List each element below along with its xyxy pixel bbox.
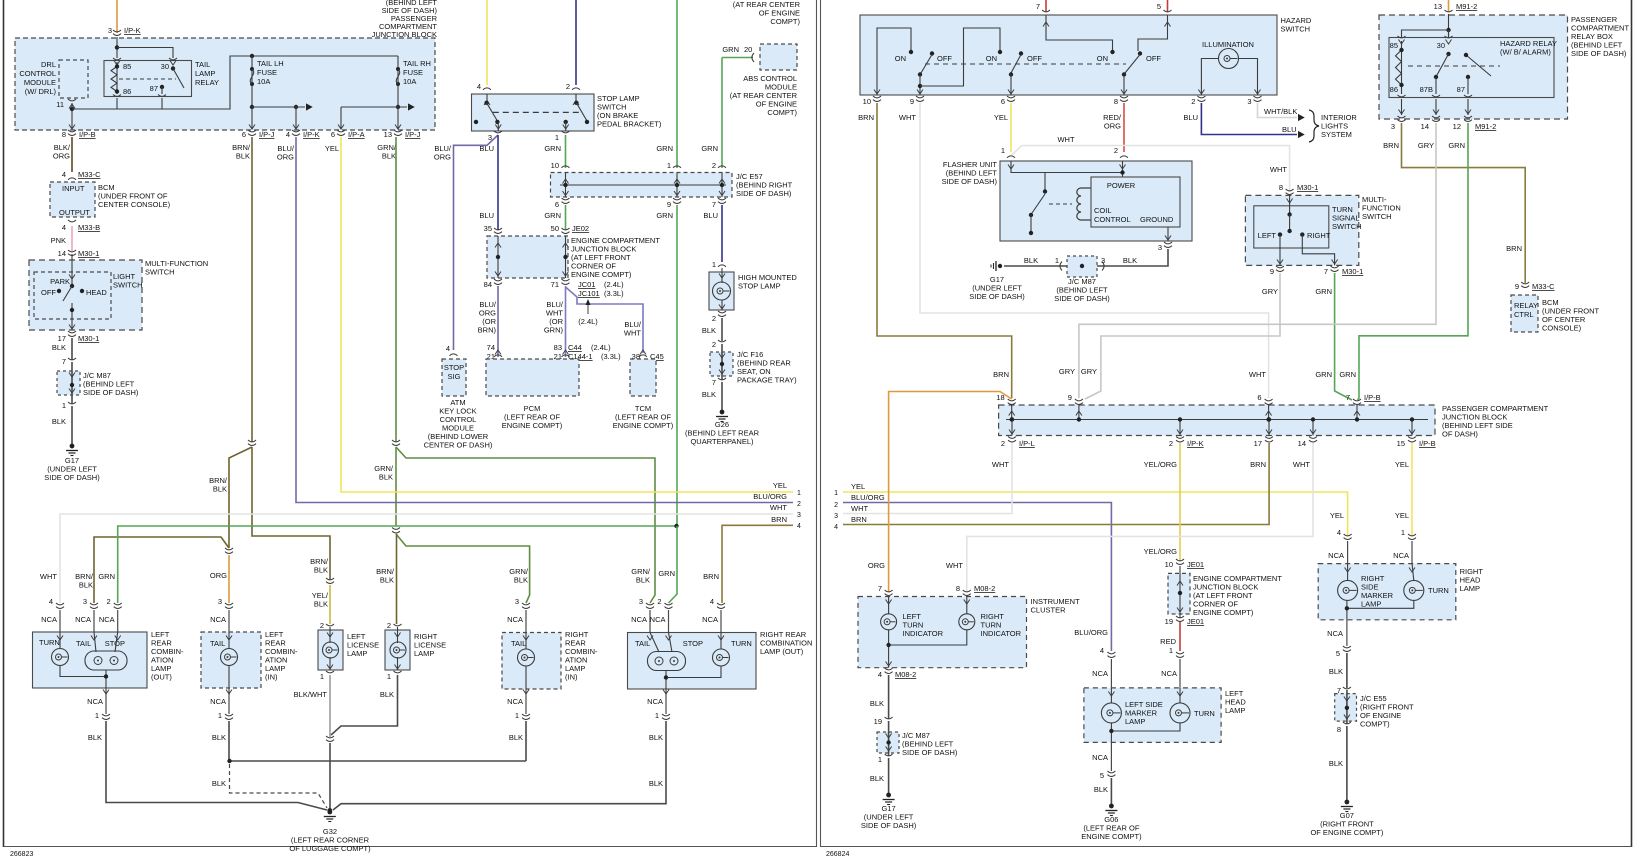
- svg-text:NCA: NCA: [507, 615, 523, 624]
- svg-text:I/P-A: I/P-A: [348, 130, 365, 139]
- wire YEL bus to right head lamp pin 4: [843, 492, 1348, 536]
- svg-text:CONSOLE): CONSOLE): [1542, 324, 1582, 333]
- svg-text:WHT: WHT: [899, 113, 916, 122]
- svg-text:(OUT): (OUT): [151, 673, 172, 682]
- connector pin 7: [718, 378, 726, 380]
- connector PCM pins 74/21: [494, 355, 502, 357]
- svg-text:TAIL LH: TAIL LH: [257, 59, 284, 68]
- wire WHT PCJB pin14 to instrument cluster pin 8: [967, 443, 1313, 592]
- wire PNK BCM to light switch: [71, 226, 73, 251]
- svg-text:PARK: PARK: [50, 277, 70, 286]
- svg-text:BLK: BLK: [649, 779, 663, 788]
- lamp pin connector left rear combination lamp in pin 3: [225, 603, 233, 605]
- svg-text:86: 86: [1390, 85, 1398, 94]
- connector pin 2 at J/C F16: [718, 340, 726, 342]
- svg-text:I/P-B: I/P-B: [1364, 393, 1381, 402]
- svg-text:1: 1: [1169, 646, 1173, 655]
- svg-text:3: 3: [515, 597, 519, 606]
- connector TSS pin 9: [1276, 266, 1284, 268]
- connector J/C E57 pin 7: [718, 198, 726, 200]
- connector JE02 pin 84: [494, 279, 502, 281]
- svg-text:C44: C44: [568, 343, 582, 352]
- wire YEL/BLK to left license lamp pin 2: [329, 585, 331, 624]
- svg-text:10: 10: [1165, 560, 1173, 569]
- connector JE01 pin 10: [1176, 559, 1184, 561]
- ABS control module (at rear center of engine compt): [760, 44, 797, 70]
- connector pin 1: [885, 754, 893, 756]
- wire BLK to G26: [721, 382, 723, 410]
- svg-text:OFF: OFF: [1027, 54, 1042, 63]
- svg-text:3: 3: [797, 512, 801, 519]
- wire to pin 6 I/P-A: [340, 107, 342, 129]
- junction connector J/C F16 (behind rear seat): [710, 352, 733, 376]
- wire branch to relay pin 30: [117, 48, 173, 59]
- wire relay 87 to bus: [158, 95, 166, 97]
- svg-text:BLK/WHT: BLK/WHT: [294, 690, 328, 699]
- wire BLK right license to splice: [331, 675, 398, 735]
- svg-text:(IN): (IN): [565, 673, 578, 682]
- ground G32 (left rear corner of luggage compt): [327, 808, 332, 813]
- wire GRY relay pin14 to PCJB pin 9: [1079, 123, 1436, 398]
- svg-text:STOP LAMP: STOP LAMP: [738, 282, 781, 291]
- right license lamp: [385, 630, 410, 670]
- svg-text:M30-1: M30-1: [78, 334, 99, 343]
- svg-text:BLK: BLK: [702, 326, 716, 335]
- junction under LH fuse: [250, 105, 254, 109]
- connector right head lamp pin 4: [1344, 534, 1352, 536]
- svg-text:4: 4: [834, 524, 838, 531]
- wire GRN TSS pin7 to PCJB pin 7: [1335, 273, 1352, 400]
- relay contact 87: [160, 85, 164, 89]
- svg-text:1: 1: [218, 711, 222, 720]
- svg-text:BLU: BLU: [479, 211, 494, 220]
- tail lh fuse 10A: [250, 54, 254, 58]
- wire GRN tail feed to left rear combination lamp out pin 2: [118, 526, 677, 603]
- left head lamp internal ground: [1111, 723, 1180, 731]
- TCM (left rear of engine compt): [630, 359, 656, 396]
- junction connector J/C M87 (behind left side of dash): [57, 371, 80, 395]
- svg-text:BRN: BRN: [703, 572, 719, 581]
- svg-text:WHT/BLK: WHT/BLK: [1264, 107, 1297, 116]
- ground G17 right page flasher: [998, 264, 1002, 268]
- connector hazard pin 5: [1164, 10, 1172, 12]
- hazard relay (w/ b/ alarm): [1389, 38, 1554, 98]
- svg-text:NCA: NCA: [702, 615, 718, 624]
- connector pin 2 below lamp: [718, 311, 726, 313]
- light switch box: [34, 272, 111, 319]
- svg-text:2: 2: [320, 621, 324, 630]
- left license lamp: [318, 630, 343, 670]
- svg-text:1: 1: [1055, 256, 1059, 265]
- svg-text:M33-B: M33-B: [78, 223, 100, 232]
- svg-text:10A: 10A: [403, 77, 416, 86]
- svg-text:50: 50: [551, 224, 559, 233]
- svg-text:1: 1: [320, 672, 324, 681]
- connector PCM pins 83/21 C44/C144-1: [562, 355, 570, 357]
- passenger compartment relay box: [1379, 15, 1568, 119]
- svg-text:ENGINE COMPT): ENGINE COMPT): [1081, 832, 1142, 841]
- svg-text:M08-2: M08-2: [895, 670, 916, 679]
- splice connector BRN/BLK to YEL/BLK at license: [326, 578, 334, 580]
- svg-text:NCA: NCA: [650, 615, 666, 624]
- svg-text:SWITCH: SWITCH: [113, 281, 143, 290]
- svg-text:M33-C: M33-C: [1532, 282, 1555, 291]
- connector high mounted stop lamp pin 1: [718, 265, 726, 267]
- svg-text:(W/ B/ ALARM): (W/ B/ ALARM): [1500, 48, 1551, 57]
- svg-text:YEL: YEL: [325, 144, 339, 153]
- svg-text:BLK: BLK: [52, 343, 66, 352]
- connector JE02 pin 35: [494, 228, 502, 230]
- wire YEL/ORG PCJB pin 2 I/P-K to JE01: [1179, 443, 1181, 561]
- wire RED/ORG hazard pin8 to flasher pin 2: [1123, 103, 1125, 152]
- svg-text:STOP: STOP: [105, 639, 125, 648]
- svg-text:1: 1: [667, 161, 671, 170]
- svg-text:M30-1: M30-1: [1342, 267, 1363, 276]
- wire BLK to J/C M87: [71, 338, 73, 360]
- svg-text:GRN: GRN: [1315, 287, 1332, 296]
- connector pin 7 at J/C E55: [1343, 687, 1351, 689]
- svg-text:9: 9: [667, 200, 671, 209]
- svg-text:OFF: OFF: [937, 54, 952, 63]
- svg-text:GRY: GRY: [1418, 141, 1434, 150]
- svg-text:MODULE: MODULE: [24, 78, 56, 87]
- svg-text:BLK: BLK: [1024, 256, 1038, 265]
- wire BRN/BLK to right license lamp pin 2: [396, 534, 398, 624]
- svg-text:BRN: BRN: [851, 515, 867, 524]
- svg-text:ON: ON: [895, 54, 906, 63]
- svg-text:GRN: GRN: [658, 569, 675, 578]
- svg-text:BLK: BLK: [649, 733, 663, 742]
- svg-text:4: 4: [62, 170, 66, 179]
- svg-text:GRN: GRN: [1448, 141, 1465, 150]
- svg-text:SIDE OF DASH): SIDE OF DASH): [942, 177, 998, 186]
- svg-text:1: 1: [515, 711, 519, 720]
- svg-text:30: 30: [1437, 41, 1445, 50]
- svg-text:BRN: BRN: [1250, 460, 1266, 469]
- svg-text:12: 12: [1453, 122, 1461, 131]
- svg-text:SYSTEM: SYSTEM: [1321, 130, 1352, 139]
- svg-text:ENGINE COMPT): ENGINE COMPT): [502, 421, 563, 430]
- svg-text:LAMP: LAMP: [347, 649, 367, 658]
- svg-text:6: 6: [1001, 97, 1005, 106]
- svg-text:NCA: NCA: [631, 615, 647, 624]
- wire BRN bus to PCJB pin 17: [843, 443, 1269, 525]
- svg-text:PEDAL BRACKET): PEDAL BRACKET): [597, 120, 662, 129]
- svg-text:19: 19: [1165, 617, 1173, 626]
- connector flasher pin 2: [1120, 156, 1128, 158]
- svg-text:NCA: NCA: [210, 697, 226, 706]
- left rear combination lamp (in) box: [201, 632, 261, 688]
- connector right license pin 1: [394, 671, 402, 673]
- svg-text:I/P-L: I/P-L: [1019, 439, 1035, 448]
- svg-text:BLK: BLK: [1329, 759, 1343, 768]
- svg-text:BLK: BLK: [1123, 256, 1137, 265]
- svg-text:FUSE: FUSE: [257, 68, 277, 77]
- svg-text:10A: 10A: [257, 77, 270, 86]
- svg-text:9: 9: [1068, 393, 1072, 402]
- ground G17 (under left side of dash) cluster: [886, 793, 891, 798]
- hazard switch bottom connectors: [874, 90, 880, 95]
- svg-text:15: 15: [1397, 439, 1405, 448]
- svg-text:NCA: NCA: [75, 615, 91, 624]
- wire BLU/ORG (OR BRN) JE02 84 to PCM: [497, 286, 499, 357]
- svg-text:LAMP: LAMP: [1125, 717, 1145, 726]
- svg-text:SWITCH: SWITCH: [1281, 25, 1311, 34]
- hazard switch 1 feed from pin 10: [877, 28, 911, 95]
- svg-text:2: 2: [657, 597, 661, 606]
- svg-text:SIDE OF DASH): SIDE OF DASH): [861, 821, 917, 830]
- svg-text:4: 4: [62, 223, 66, 232]
- svg-text:QUARTERPANEL): QUARTERPANEL): [690, 437, 754, 446]
- hazard switch 1 lever: [930, 51, 934, 55]
- wire GRN J/C E57 pin6 to JE02 50: [565, 205, 567, 230]
- light switch lever: [63, 286, 72, 301]
- cluster internal ground: [889, 630, 967, 645]
- junction connector J/C E57 (behind right side of dash): [551, 173, 733, 198]
- svg-text:GRY: GRY: [1059, 367, 1075, 376]
- wire BRN/BLK splice to license branch: [252, 447, 330, 580]
- svg-text:I/P-B: I/P-B: [1419, 439, 1436, 448]
- svg-text:1: 1: [387, 672, 391, 681]
- left head lamp box: [1084, 688, 1221, 743]
- svg-text:NCA: NCA: [87, 697, 103, 706]
- svg-text:TURN: TURN: [731, 639, 752, 648]
- junction block bottom connectors: [69, 125, 75, 130]
- svg-text:11: 11: [56, 100, 64, 109]
- svg-text:13: 13: [1434, 2, 1442, 11]
- svg-text:YEL: YEL: [851, 482, 865, 491]
- wire BLK lamp to J/C F16: [721, 318, 723, 341]
- svg-text:1: 1: [797, 490, 801, 497]
- wire left contact to pin 9: [1279, 235, 1281, 266]
- svg-text:GRN: GRN: [1339, 370, 1356, 379]
- svg-text:COIL: COIL: [1094, 206, 1112, 215]
- svg-text:BLK: BLK: [514, 576, 528, 585]
- svg-text:RIGHT: RIGHT: [1307, 231, 1331, 240]
- connector hazard pin 7: [1042, 10, 1050, 12]
- svg-text:2: 2: [1001, 439, 1005, 448]
- svg-text:9: 9: [1515, 282, 1519, 291]
- svg-text:M30-1: M30-1: [78, 249, 99, 258]
- svg-text:HEAD: HEAD: [86, 288, 107, 297]
- svg-text:BLU: BLU: [1282, 125, 1297, 134]
- connector flasher pin 1: [1007, 156, 1015, 158]
- lamp internal ground wires: [60, 666, 106, 677]
- ground G26 (behind left rear quarterpanel): [720, 410, 725, 415]
- svg-text:TURN: TURN: [39, 638, 60, 647]
- svg-text:9: 9: [910, 97, 914, 106]
- wire GRN to right rear combination lamp out pin 2: [669, 526, 678, 603]
- svg-text:7: 7: [878, 584, 882, 593]
- connector left head lamp pin 4: [1107, 652, 1115, 654]
- connector pin 19: [885, 717, 893, 719]
- connector stop lamp pin 2: [572, 88, 580, 90]
- svg-text:(2.4L): (2.4L): [604, 280, 624, 289]
- wire GRY TSS pin9 to PCJB pin 9: [1085, 273, 1280, 399]
- svg-text:ORG: ORG: [210, 571, 227, 580]
- svg-text:TURN: TURN: [1194, 709, 1215, 718]
- connector stop lamp pin 4: [483, 88, 491, 90]
- svg-text:3: 3: [83, 597, 87, 606]
- svg-text:BLK: BLK: [702, 390, 716, 399]
- svg-text:BLK: BLK: [212, 779, 226, 788]
- connector right head lamp pin 1: [1408, 534, 1416, 536]
- svg-text:JUNCTION BLOCK: JUNCTION BLOCK: [372, 30, 437, 39]
- connector left license lamp pin 2: [326, 624, 334, 626]
- connector M30-1 pin 17: [68, 331, 76, 333]
- wire GRN relay pin12 to PCJB pin 7: [1358, 123, 1469, 400]
- wire GRN from top into J/C E57 pin 1: [676, 0, 678, 168]
- wire BRN relay pin3 to BCM relay ctrl: [1402, 123, 1526, 283]
- connector J/C E57 pin 6: [562, 198, 570, 200]
- svg-text:BRN: BRN: [1383, 141, 1399, 150]
- svg-text:JC01: JC01: [578, 280, 596, 289]
- junction connector J/C M87 cluster ground: [877, 732, 899, 753]
- relay outputs to box bottom: [1398, 95, 1406, 97]
- J/C E57 internal pins: [565, 173, 567, 198]
- svg-text:2: 2: [1169, 439, 1173, 448]
- BCM relay ctrl box: [1511, 295, 1538, 332]
- wire BLU/WHT (OR GRN) JE02 71 to PCM: [565, 286, 567, 357]
- wire BRN/BLK pin6 I/P-J down to splice: [251, 137, 253, 442]
- right side marker lamp bulb: [1347, 564, 1349, 581]
- svg-text:1: 1: [834, 490, 838, 497]
- svg-text:M08-2: M08-2: [974, 584, 995, 593]
- wire BLK in-lamps common: [229, 721, 526, 761]
- wire RH fuse to pin 13 I/P-J: [397, 107, 399, 129]
- tail lamp relay: [104, 61, 192, 97]
- svg-text:9: 9: [1270, 267, 1274, 276]
- svg-text:I/P-K: I/P-K: [124, 26, 141, 35]
- wire BRN/BLK horizontal to left rear combination lamp out pin 3: [94, 537, 229, 603]
- connector cluster pin 8 M08-2: [963, 590, 971, 592]
- svg-text:2: 2: [712, 314, 716, 323]
- svg-text:BRN: BRN: [1506, 244, 1522, 253]
- turn signal switch lever: [1289, 196, 1291, 213]
- svg-text:1: 1: [655, 711, 659, 720]
- hazard switch dashed gang line: [925, 63, 1126, 65]
- svg-text:SIDE OF DASH): SIDE OF DASH): [1054, 294, 1110, 303]
- wire WHT/BLK hazard pin3 to interior lights: [1258, 103, 1298, 118]
- relay switch lever 30-87: [171, 66, 175, 70]
- svg-text:2: 2: [387, 621, 391, 630]
- svg-text:TURN: TURN: [1428, 586, 1449, 595]
- junction under RH fuse: [396, 105, 400, 109]
- lamp internal grounds right: [666, 666, 721, 678]
- svg-text:SWITCH: SWITCH: [1332, 222, 1362, 231]
- svg-text:INPUT: INPUT: [62, 184, 85, 193]
- svg-text:COMPT): COMPT): [770, 17, 800, 26]
- svg-text:BLK: BLK: [88, 733, 102, 742]
- svg-text:(3.3L): (3.3L): [604, 289, 624, 298]
- svg-text:87: 87: [150, 84, 158, 93]
- svg-text:8: 8: [1114, 97, 1118, 106]
- svg-text:WHT: WHT: [40, 572, 57, 581]
- svg-text:NCA: NCA: [1393, 551, 1409, 560]
- svg-text:COMPT): COMPT): [1360, 720, 1390, 729]
- svg-text:1: 1: [1401, 528, 1405, 537]
- svg-text:OF DASH): OF DASH): [1442, 430, 1478, 439]
- svg-text:87B: 87B: [1420, 85, 1433, 94]
- svg-text:BLK: BLK: [1094, 785, 1108, 794]
- svg-text:BLK: BLK: [314, 600, 328, 609]
- connector J/C E57 pin 10: [562, 166, 570, 168]
- relay coil 85-86: [116, 62, 118, 94]
- svg-text:TAIL: TAIL: [635, 639, 650, 648]
- svg-text:YEL/ORG: YEL/ORG: [1144, 547, 1178, 556]
- connector M91-2 pin 13: [1445, 10, 1453, 12]
- svg-text:BRN: BRN: [858, 113, 874, 122]
- svg-text:19: 19: [874, 717, 882, 726]
- left turn indicator bulb: [888, 597, 890, 615]
- relay internal dashed link: [119, 78, 176, 80]
- connector JE01 pin 19: [1176, 616, 1184, 618]
- wire BLU stop lamp pin3 down to JE02 35: [497, 135, 499, 230]
- svg-text:ON: ON: [1097, 54, 1108, 63]
- svg-text:85: 85: [1390, 41, 1398, 50]
- svg-text:NCA: NCA: [41, 615, 57, 624]
- svg-text:OFF: OFF: [1146, 54, 1161, 63]
- svg-text:87: 87: [1457, 85, 1465, 94]
- wire BRN bus 4 to right rear combination lamp out pin 4: [722, 525, 793, 603]
- multi-function switch outer box right page: [1245, 195, 1358, 265]
- wire BLK/ORG pin8 to BCM: [71, 137, 73, 172]
- wire to pin 4 I/P-K: [295, 107, 297, 129]
- svg-text:14: 14: [1298, 439, 1306, 448]
- stop lamp switch internals: [486, 94, 488, 101]
- wire GRN/BLK pin13 I/P-J down to splice: [395, 137, 397, 442]
- page frame right sheet 266824: [820, 0, 822, 847]
- engine compartment junction block (right page): [1168, 573, 1190, 614]
- svg-text:JE02: JE02: [572, 224, 589, 233]
- svg-text:GRN: GRN: [544, 211, 561, 220]
- dashed BLK to G32: [230, 764, 328, 808]
- svg-text:6: 6: [242, 130, 246, 139]
- connector DRL pin 11: [68, 99, 76, 101]
- splice connector on GRN/BLK: [392, 440, 400, 442]
- 2.4L reference arrow: [587, 302, 589, 314]
- wire BLU/ORG stop lamp pin3 to ATM stop sig: [454, 135, 499, 350]
- svg-text:4: 4: [878, 670, 882, 679]
- connector pin 7: [68, 358, 76, 360]
- svg-text:1: 1: [878, 755, 882, 764]
- svg-text:3: 3: [1101, 256, 1105, 265]
- wire YEL into stop lamp switch pin 4: [486, 0, 488, 85]
- svg-text:3: 3: [639, 597, 643, 606]
- wire BLK to G17: [71, 406, 73, 444]
- connectors right rear combination lamp out pins 3 2 4: [646, 603, 654, 605]
- wire GRN J/C E57 pin9 long down: [676, 205, 678, 526]
- svg-text:8: 8: [1337, 725, 1341, 734]
- svg-text:PNK: PNK: [51, 236, 66, 245]
- svg-text:SIG: SIG: [448, 372, 461, 381]
- svg-text:I/P-K: I/P-K: [1187, 439, 1204, 448]
- svg-text:NCA: NCA: [1092, 669, 1108, 678]
- wire BRN hazard pin10 to PCJB pin 18: [877, 103, 1012, 398]
- wire bus DRL11-86-87 to fuse feed: [71, 103, 73, 129]
- svg-text:4: 4: [1337, 528, 1341, 537]
- svg-text:LAMP: LAMP: [1225, 706, 1245, 715]
- svg-text:ON: ON: [986, 54, 997, 63]
- svg-text:71: 71: [551, 280, 559, 289]
- ground G07 (right front of engine compt): [1345, 800, 1350, 805]
- connector M33-B pin 4: [68, 220, 76, 222]
- svg-text:SWITCH: SWITCH: [1362, 212, 1392, 221]
- svg-text:17: 17: [58, 334, 66, 343]
- svg-text:LAMP: LAMP: [1460, 584, 1480, 593]
- wire ORG into relay box pin 13: [1448, 0, 1450, 12]
- wire WHT bus to PCJB pin 2 I/P-L: [843, 443, 1012, 514]
